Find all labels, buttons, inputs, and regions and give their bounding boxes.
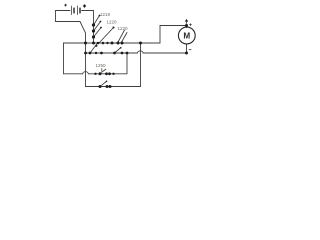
label motor minus [189,49,192,51]
node bus j85 [84,42,87,45]
node blade tip b [100,21,102,23]
svg-text:1250: 1250 [96,63,107,68]
node row2 j101 [100,52,103,55]
wire row3 right [88,53,127,74]
battery B1 [71,6,73,15]
arrow current into motor [186,21,188,24]
node row2 j96 [95,52,97,54]
svg-text:M: M [183,32,190,41]
node row3 j113 [112,73,114,75]
node motor top [185,24,188,27]
svg-text:1219: 1219 [100,12,111,17]
wire hop over vertical [83,72,89,74]
switch blade 1220 a [94,22,101,32]
svg-text:1220: 1220 [107,20,118,25]
switch blade row3 [102,69,106,72]
node motor bottom [185,52,188,55]
switch blade row2 g [115,48,121,53]
node row2 j90 [89,52,92,55]
label motor plus [189,23,192,26]
node blade tip a [99,15,101,17]
node bus j112 [111,42,114,45]
node row3 j109 [108,72,111,75]
node row2 j85 [84,52,87,55]
switch blade 1220 d long [99,28,114,44]
wire row4 [86,43,141,87]
node battery drop j3 [92,35,95,38]
wire battery right lead [82,11,94,44]
wire left drop [63,43,65,74]
wire battery left lead [56,11,86,87]
switch blade 1219 [94,16,100,26]
node bus j122 [121,42,124,45]
node bus j93 [92,42,95,45]
node row2 j114 [113,52,116,55]
wire row3 with hop [64,73,83,75]
wire row2 right to motor bottom [143,44,186,53]
wire hop row2 [138,51,144,53]
node row4 j107 [106,85,109,88]
node row3 j95 [94,73,96,75]
wire bus top [64,42,161,44]
switch blade e2 [121,33,127,44]
node bus j98 [97,42,100,45]
wire row2 left [86,52,138,54]
node row4 j110 [109,85,112,88]
node battery drop j2 [92,29,95,32]
node row4 blade tip [106,81,108,83]
wire riser to motor top [160,26,187,44]
label battery plus [83,4,86,7]
node row3 j100 [99,72,102,75]
motor M1 circle [178,27,195,44]
switch blade e1 [118,30,125,43]
label battery minus [64,4,67,7]
node blade tip d [113,27,115,29]
node bus j118 [117,42,120,45]
switch blade row4 [102,82,107,86]
svg-text:1220: 1220 [118,26,129,31]
label tick 1250 [101,68,103,71]
node row4 j100 [99,85,102,88]
node row2 tip g [120,47,122,49]
node row2 j127 [126,52,129,55]
node row2 tip f [95,45,97,47]
node row3 j106 [105,72,108,75]
arrowhead current into motor [185,19,188,22]
node blade tip c [100,27,102,29]
switch blade c [94,28,102,38]
node row2 j122 [121,52,124,55]
node bus j140 [139,42,142,45]
node bus j107 [106,42,108,44]
switch blade row2 f [90,43,98,54]
node battery drop j1 [92,23,95,26]
node bus j103 [102,42,105,45]
